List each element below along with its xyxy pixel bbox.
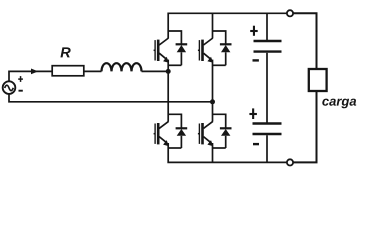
label carga [322, 99, 356, 109]
wire: Q3 emitter / D3 anode junction [168, 147, 181, 149]
diode D1 [176, 44, 188, 65]
transistor Q2 (IGBT) [198, 38, 213, 63]
wire: capacitor bottom lead [266, 135, 268, 162]
node B (AC return joins right leg) [210, 99, 215, 104]
wire: right leg mid [212, 60, 214, 122]
AC source V1 [3, 81, 16, 94]
terminal node top (DC output +) [287, 10, 293, 16]
diode D2 [220, 44, 232, 65]
label + of C2 [249, 108, 257, 119]
label - of C2 [253, 143, 259, 145]
resistor R [52, 66, 84, 76]
inductor L [102, 63, 142, 71]
diode D3 [176, 128, 188, 148]
wire: right leg to bottom rail [212, 143, 214, 162]
label R [60, 47, 70, 57]
wire: source top lead to resistor [9, 71, 52, 81]
wire: top terminal to load branch [293, 13, 316, 69]
transistor Q4 (IGBT) [198, 121, 213, 146]
wire: Q4 collector to D4 cathode [213, 114, 226, 127]
wire: right leg upper (collector Q2) [212, 13, 214, 38]
capacitor C1 [254, 41, 282, 52]
label + of source [18, 76, 23, 82]
wire: source bottom lead [9, 94, 213, 102]
label - of source [19, 90, 23, 92]
wire: inductor to left leg node [142, 70, 169, 72]
load resistor (carga) [309, 69, 327, 91]
diode D4 [220, 128, 232, 148]
wire: capacitor branch top lead [266, 13, 268, 41]
capacitor C2 [253, 124, 282, 135]
wire: Q4 emitter / D4 anode junction [213, 147, 226, 149]
label - of C1 [253, 59, 259, 61]
wire: left leg mid (crosses return wire, no junction) [167, 60, 169, 122]
wire: Q2 emitter / D2 anode junction [213, 64, 226, 66]
wire: capacitor middle lead [266, 53, 268, 123]
transistor Q1 (IGBT) [154, 38, 169, 63]
wire: Q1 emitter / D1 anode junction [168, 64, 181, 66]
wire: bottom DC rail [168, 143, 287, 162]
label + of C1 [250, 26, 258, 36]
wire: Q3 collector to D3 cathode [168, 114, 181, 127]
terminal node bottom (DC output -) [287, 159, 293, 165]
node A (AC input joins left leg) [166, 69, 171, 74]
wire: Q2 collector to D2 cathode [213, 31, 226, 44]
wire: top DC rail [168, 13, 287, 38]
wire: resistor to inductor [84, 70, 102, 72]
transistor Q3 (IGBT) [154, 121, 169, 146]
wire: load to bottom terminal [293, 91, 316, 162]
arrow on input wire [31, 69, 38, 75]
wire: Q1 collector to D1 cathode [168, 31, 181, 44]
